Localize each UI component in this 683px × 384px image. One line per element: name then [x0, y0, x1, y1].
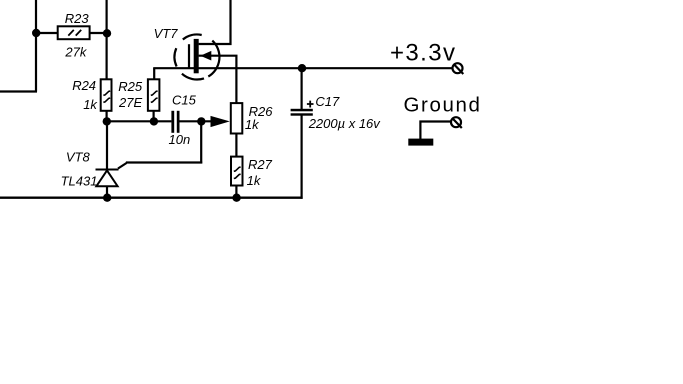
wire TL431 cathode lead: [106, 121, 108, 169]
plus polarity mark: [307, 101, 314, 108]
node TL431 anode junction: [103, 194, 111, 202]
wire TL431 anode lead: [106, 186, 108, 199]
wire feedback bus to C15: [106, 120, 172, 122]
wire ground terminal lead: [420, 122, 450, 140]
wire R24 bottom lead: [105, 111, 107, 123]
resistor R23: [58, 26, 90, 39]
terminal +3.3v: [453, 63, 464, 74]
resistor R24: [101, 79, 112, 111]
wire C15 to arrow: [180, 120, 212, 122]
channel bar: [194, 39, 199, 73]
svg-text:+3.3v: +3.3v: [390, 40, 456, 67]
node R24 bottom junction: [103, 117, 111, 125]
svg-text:1k: 1k: [83, 97, 98, 112]
ground bar: [408, 139, 433, 146]
svg-text:1k: 1k: [245, 117, 260, 132]
node R25 bottom junction: [150, 117, 158, 125]
node C15 output junction: [197, 117, 205, 125]
wire R25 bottom lead: [153, 111, 155, 123]
transistor VT7: [175, 34, 220, 79]
svg-text:C17: C17: [315, 94, 340, 109]
wire R27 bottom lead: [235, 186, 237, 199]
svg-text:27E: 27E: [118, 95, 142, 110]
svg-text:2200µ x 16v: 2200µ x 16v: [308, 116, 382, 131]
svg-text:C15: C15: [172, 93, 197, 108]
source arrow: [200, 51, 211, 61]
wire C15 node down: [200, 121, 202, 163]
svg-text:TL431: TL431: [61, 173, 98, 188]
wire R26 to R27 link: [235, 134, 237, 157]
wire bottom ground rail: [0, 196, 303, 198]
node +3.3v rail junction: [298, 64, 306, 72]
capacitor C15: [171, 111, 179, 133]
terminal Ground: [451, 117, 462, 128]
node R23 right junction: [103, 29, 111, 37]
gate line: [188, 44, 190, 68]
wire C17 bottom branch: [301, 116, 303, 199]
diode triangle: [96, 170, 117, 186]
wire +3.3v rail with gate lead: [153, 67, 452, 69]
wire TL431 ref diagonal: [118, 163, 127, 169]
wire R25 top lead: [153, 68, 155, 79]
svg-text:1k: 1k: [247, 173, 262, 188]
resistor R27: [231, 157, 243, 186]
svg-text:10n: 10n: [169, 132, 191, 147]
node R23 left junction: [32, 29, 40, 37]
resistor R26: [231, 103, 243, 133]
shunt regulator VT8 TL431: [96, 170, 119, 187]
cathode bar: [96, 169, 119, 171]
node R27 bottom junction: [232, 194, 240, 202]
wire VT7 source lead: [199, 56, 237, 103]
wire left horizontal to edge: [0, 90, 37, 92]
svg-text:R25: R25: [118, 79, 143, 94]
svg-text:Ground: Ground: [404, 93, 482, 116]
capacitor C17: [291, 101, 314, 116]
dashed body circle: [175, 34, 220, 79]
resistor R25: [148, 79, 160, 111]
svg-text:R27: R27: [248, 157, 273, 172]
svg-text:27k: 27k: [64, 45, 87, 60]
wire TL431 ref horizontal: [126, 161, 202, 163]
potentiometer wiper arrow: [211, 116, 230, 127]
wire left vertical from top: [35, 0, 37, 92]
svg-text:VT8: VT8: [66, 150, 91, 165]
junction dots: [32, 29, 306, 202]
svg-text:VT7: VT7: [154, 26, 179, 41]
wire vertical node B from top to R24: [105, 0, 107, 79]
wire C17 top branch: [301, 68, 303, 109]
wire R23 left lead: [36, 32, 58, 34]
svg-text:R23: R23: [65, 11, 90, 26]
wire R23 right lead: [90, 32, 107, 34]
svg-text:R24: R24: [72, 78, 96, 93]
wire VT7 drain lead: [199, 0, 231, 44]
